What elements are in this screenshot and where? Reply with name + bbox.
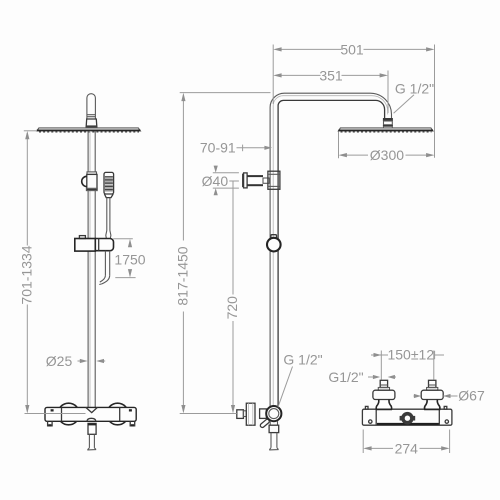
label G1/2" (bottom right)	[328, 369, 396, 385]
svg-text:Ø300: Ø300	[370, 147, 404, 163]
svg-text:501: 501	[340, 41, 364, 57]
hand shower	[104, 172, 114, 238]
svg-text:Ø40: Ø40	[202, 173, 229, 189]
dimension 501	[273, 41, 434, 157]
right mixer center rosette	[400, 412, 416, 425]
middle head connector nut	[383, 118, 393, 128]
left shower head plate (edge view)	[37, 128, 141, 132]
svg-text:1750: 1750	[114, 252, 145, 268]
left mixer foot right	[130, 421, 135, 426]
dimension Ø67	[414, 388, 485, 404]
hand shower hose	[99, 251, 109, 285]
hand shower holder bracket	[75, 236, 114, 252]
dimension 1750	[113, 239, 146, 278]
svg-text:G1/2": G1/2"	[328, 369, 363, 385]
dimension 701-1334	[19, 131, 38, 414]
left column top cap	[86, 94, 97, 128]
svg-text:70-91: 70-91	[200, 139, 236, 155]
middle column pipe with top arm	[270, 93, 391, 406]
dimension 150±12	[371, 346, 444, 379]
svg-text:150±12: 150±12	[387, 346, 434, 362]
dimension Ø40	[202, 166, 239, 196]
left mixer body	[45, 407, 136, 421]
label G 1/2" (middle)	[278, 351, 323, 407]
svg-text:720: 720	[224, 296, 240, 320]
dimension 817-1450	[175, 93, 271, 414]
middle valve assembly	[237, 403, 282, 428]
middle slider knob	[267, 235, 281, 252]
right shower head plate (edge view)	[338, 128, 433, 132]
svg-text:Ø67: Ø67	[458, 388, 485, 404]
left mixer foot left	[48, 421, 53, 426]
left mixer outlet	[87, 423, 96, 450]
label G 1/2" (top)	[394, 81, 435, 114]
svg-text:817-1450: 817-1450	[175, 246, 191, 305]
dimension 70-91	[200, 139, 272, 155]
svg-text:G 1/2": G 1/2"	[395, 81, 434, 97]
svg-text:Ø25: Ø25	[46, 353, 73, 369]
dimension Ø300	[339, 132, 435, 164]
left mixer centerline	[25, 413, 86, 415]
svg-text:701-1334: 701-1334	[19, 245, 35, 304]
right mixer right inlet column	[421, 380, 443, 409]
right mixer left inlet column	[373, 380, 395, 409]
left column slider joint block	[82, 172, 97, 191]
left column pipe	[88, 131, 95, 408]
svg-text:274: 274	[395, 440, 419, 456]
svg-text:351: 351	[319, 67, 343, 83]
middle valve outlet	[269, 421, 279, 450]
left mixer knobs	[58, 403, 129, 425]
middle wall bracket	[243, 171, 280, 189]
right mixer body	[362, 406, 452, 425]
svg-text:G 1/2": G 1/2"	[283, 351, 322, 367]
dimension 351	[273, 67, 388, 113]
dimension Ø25	[46, 353, 105, 369]
dimension 720	[224, 181, 240, 413]
dimension 274	[363, 430, 449, 457]
